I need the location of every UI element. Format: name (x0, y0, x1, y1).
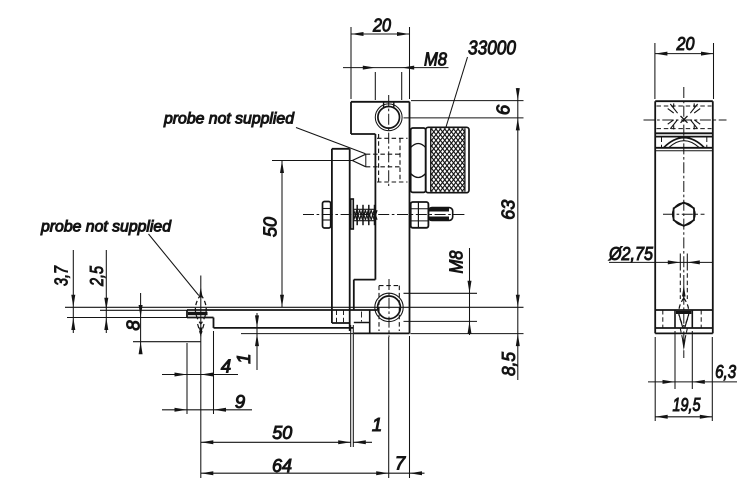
svg-text:probe not supplied: probe not supplied (163, 111, 294, 128)
svg-text:9: 9 (235, 391, 245, 412)
svg-text:19,5: 19,5 (673, 394, 702, 415)
svg-text:probe not supplied: probe not supplied (40, 219, 171, 236)
svg-text:1: 1 (233, 354, 254, 364)
svg-text:64: 64 (272, 455, 292, 476)
svg-text:M8: M8 (446, 250, 467, 274)
svg-text:6,3: 6,3 (715, 361, 737, 382)
svg-text:8: 8 (123, 320, 144, 331)
svg-text:1: 1 (372, 414, 382, 435)
svg-text:2,5: 2,5 (86, 265, 107, 286)
svg-text:33000: 33000 (468, 38, 516, 60)
svg-text:63: 63 (498, 199, 519, 220)
svg-text:M8: M8 (424, 49, 448, 70)
svg-text:6: 6 (493, 104, 514, 115)
svg-text:20: 20 (372, 15, 391, 36)
svg-text:Ø2,75: Ø2,75 (608, 243, 653, 264)
svg-text:7: 7 (395, 453, 406, 474)
svg-text:20: 20 (676, 33, 695, 54)
svg-text:50: 50 (260, 216, 281, 237)
svg-text:3,7: 3,7 (51, 265, 72, 286)
svg-text:8,5: 8,5 (498, 351, 519, 376)
svg-text:4: 4 (221, 356, 231, 377)
svg-text:50: 50 (272, 422, 293, 443)
